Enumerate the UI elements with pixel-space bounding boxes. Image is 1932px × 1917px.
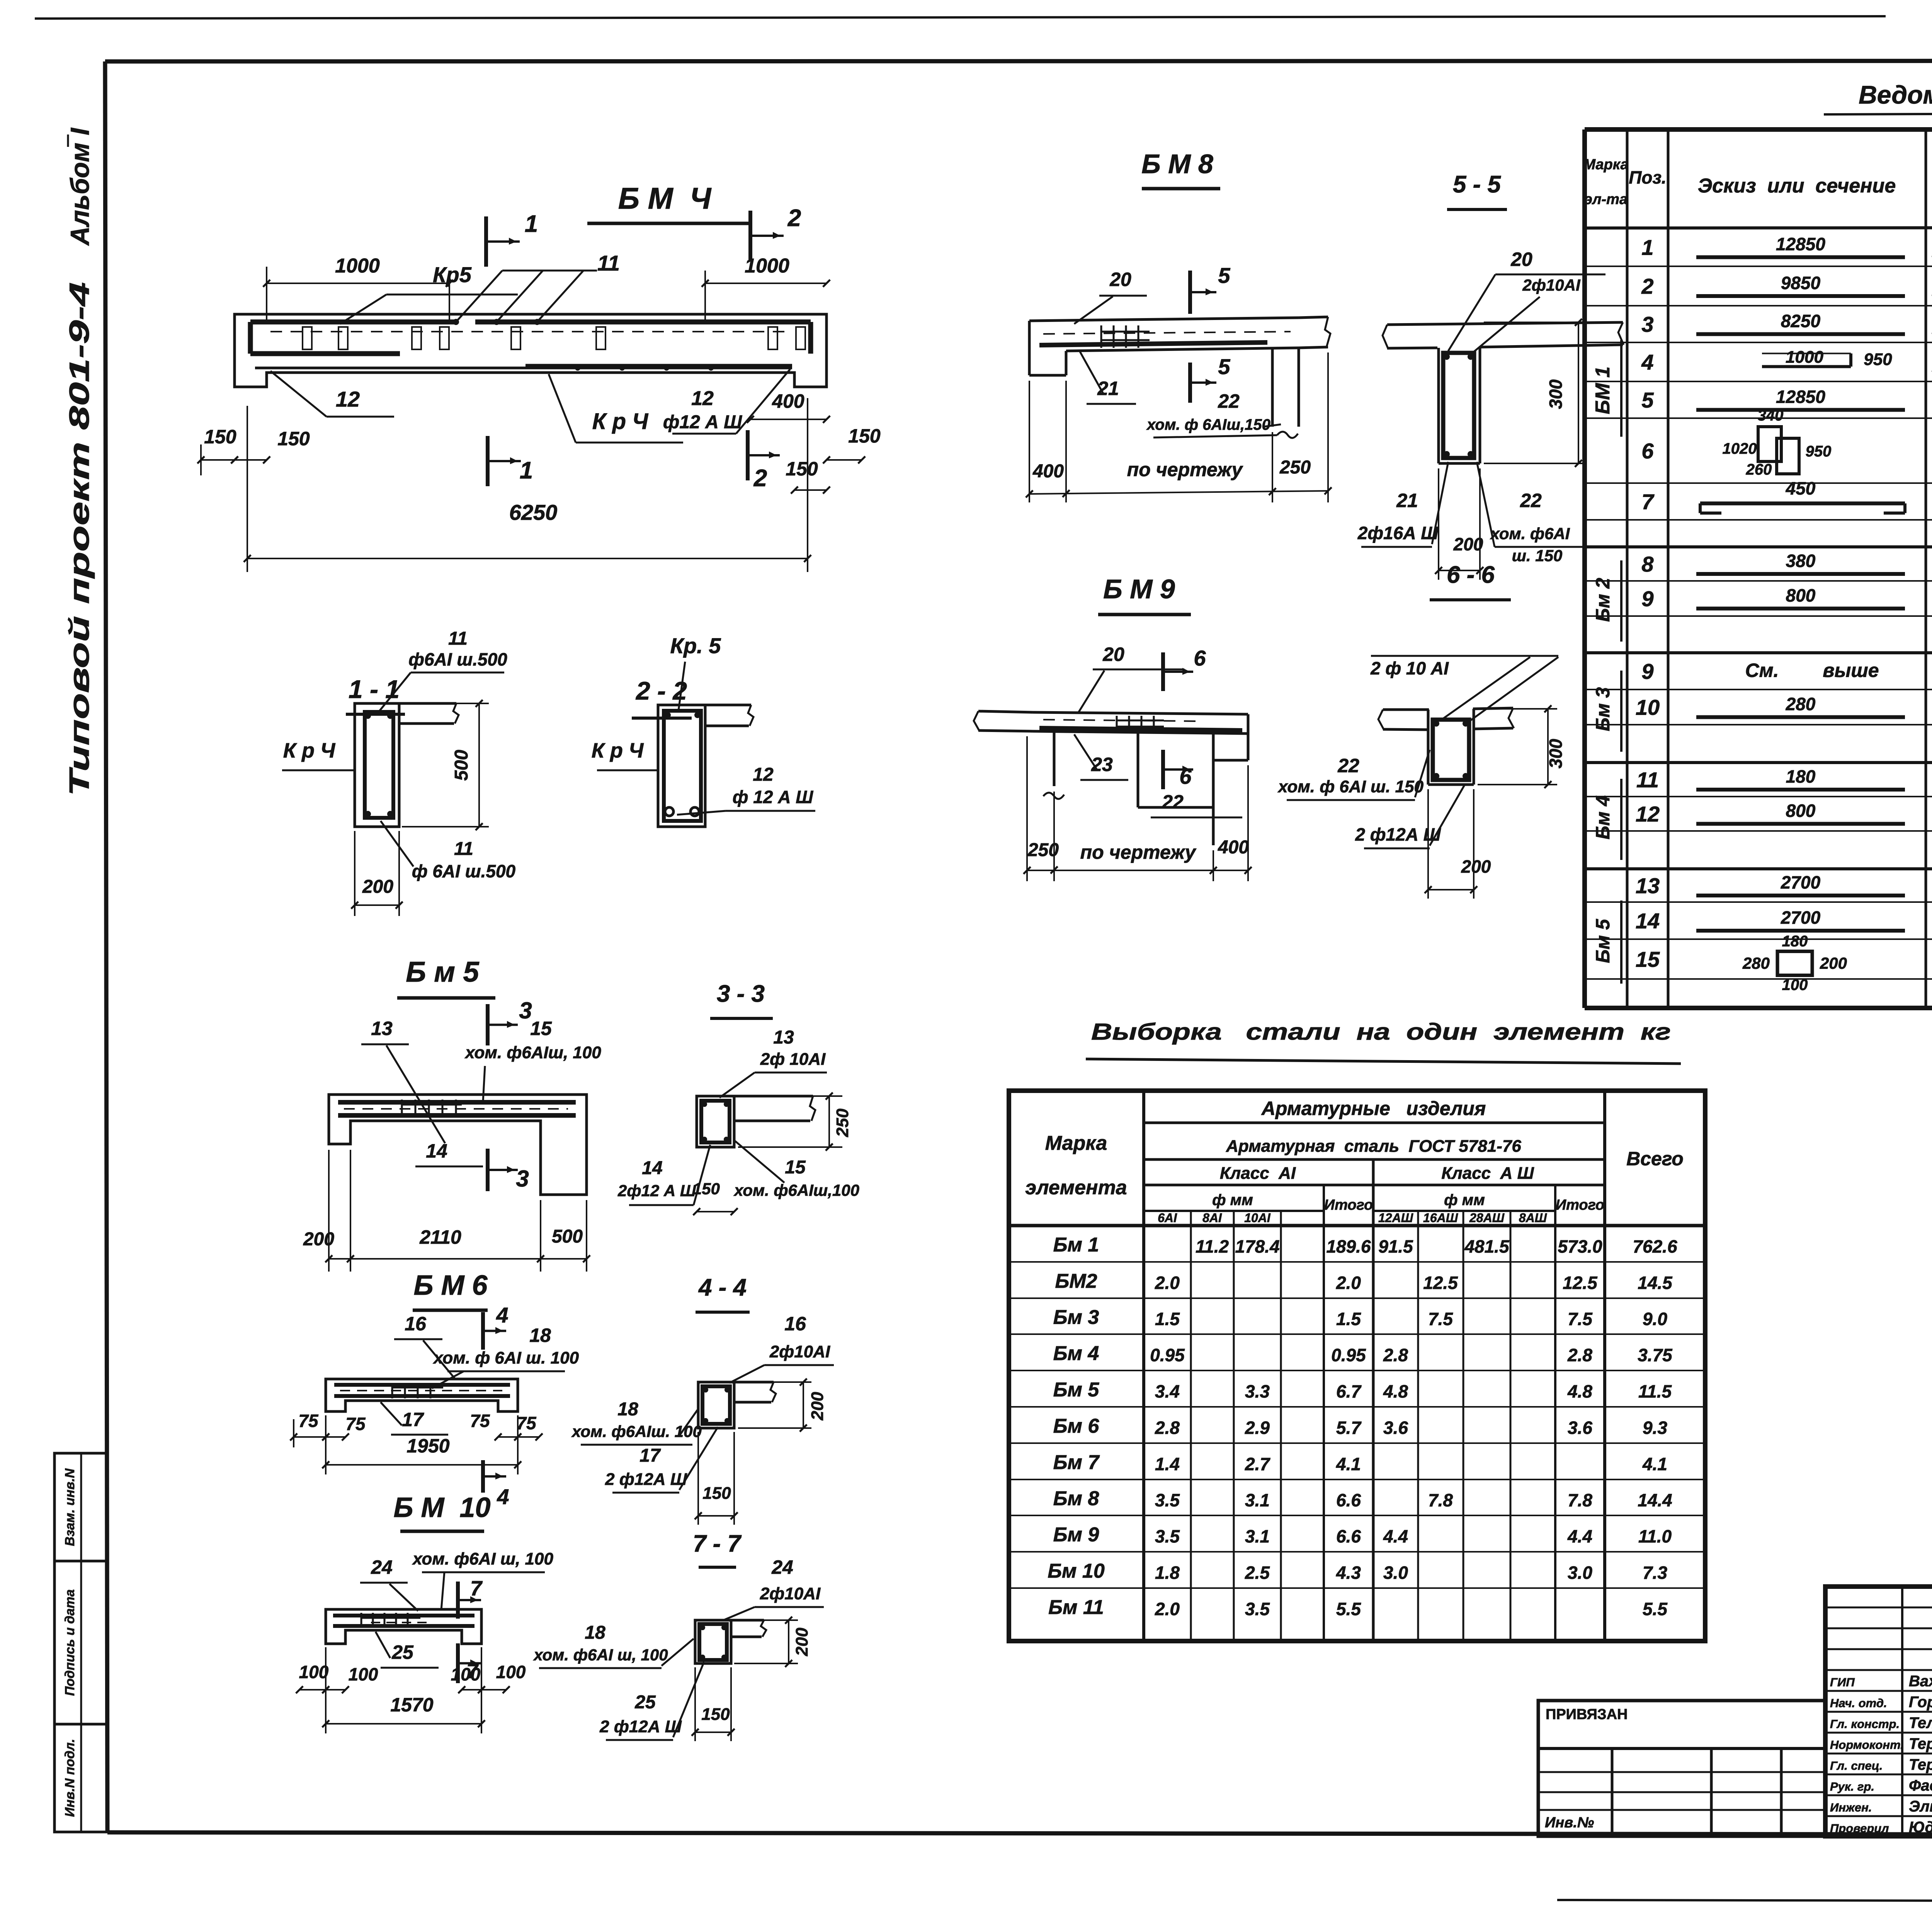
beam БМ9 outline [1033, 712, 1248, 714]
svg-text:Марка: Марка [1583, 157, 1628, 173]
beam БМ9 dims [1026, 736, 1028, 881]
svg-text:5: 5 [1218, 354, 1230, 379]
svg-text:Б м 5: Б м 5 [406, 956, 480, 988]
svg-text:12: 12 [336, 387, 360, 411]
svg-text:Альбом I: Альбом I [65, 127, 95, 246]
svg-text:Терешин: Терешин [1909, 1756, 1932, 1773]
section 6-6 dim 300 [1478, 708, 1557, 710]
svg-text:ГИП: ГИП [1830, 1675, 1855, 1689]
svg-text:500: 500 [451, 750, 472, 781]
svg-text:ф12 А Ш: ф12 А Ш [663, 412, 742, 432]
svg-text:Бм 10: Бм 10 [1048, 1560, 1105, 1582]
svg-text:20: 20 [1109, 269, 1131, 290]
beam БМ4 dim 1000 left [266, 267, 267, 321]
beam БМ8 rebar [1039, 342, 1267, 345]
svg-text:28АШ: 28АШ [1469, 1211, 1505, 1225]
svg-text:2ф 10АI: 2ф 10АI [760, 1050, 826, 1069]
beam БМ6 section marker 4 bottom [481, 1460, 485, 1493]
svg-text:9.0: 9.0 [1643, 1309, 1667, 1329]
svg-text:150: 150 [204, 426, 236, 448]
svg-text:3.5: 3.5 [1245, 1599, 1270, 1619]
svg-text:К р Ч: К р Ч [592, 409, 649, 434]
svg-text:100: 100 [349, 1664, 378, 1684]
svg-text:2.0: 2.0 [1155, 1273, 1180, 1293]
section 7-7 stirrup [699, 1624, 727, 1660]
beam БМ6 rebar [334, 1383, 510, 1387]
section 6-6 flange [1383, 708, 1429, 711]
svg-text:4.3: 4.3 [1336, 1563, 1361, 1583]
svg-text:1.4: 1.4 [1155, 1454, 1180, 1474]
beam БМ4 leader 11 [456, 271, 502, 322]
svg-text:Б М 6: Б М 6 [413, 1270, 488, 1301]
svg-text:1 - 1: 1 - 1 [349, 675, 400, 703]
svg-text:250: 250 [833, 1108, 852, 1137]
svg-text:3.75: 3.75 [1638, 1345, 1673, 1365]
svg-text:К р Ч: К р Ч [592, 739, 644, 762]
svg-text:100: 100 [496, 1662, 526, 1682]
svg-text:2110: 2110 [419, 1226, 461, 1248]
svg-text:2.7: 2.7 [1245, 1454, 1270, 1474]
svg-text:Бм 8: Бм 8 [1053, 1488, 1099, 1510]
svg-text:18: 18 [617, 1399, 638, 1420]
svg-text:4.8: 4.8 [1383, 1381, 1408, 1401]
section 5-5 flange [1387, 322, 1623, 325]
beam БМ4 outline [235, 314, 827, 387]
svg-text:9: 9 [1641, 587, 1653, 611]
svg-text:22: 22 [1520, 490, 1542, 511]
svg-text:14.5: 14.5 [1638, 1273, 1673, 1293]
svg-text:хом. ф6АI: хом. ф6АI [1490, 524, 1570, 543]
svg-text:эл-та: эл-та [1584, 191, 1628, 208]
section 7-7 outline [695, 1620, 731, 1663]
svg-text:6.6: 6.6 [1336, 1490, 1361, 1510]
svg-text:2ф10АI: 2ф10АI [769, 1342, 830, 1361]
svg-text:Терешин: Терешин [1909, 1735, 1932, 1752]
beam БМ10 section marker 7 bottom [456, 1643, 460, 1683]
svg-text:2.8: 2.8 [1155, 1418, 1180, 1438]
svg-text:22: 22 [1218, 390, 1240, 412]
title block left rows [1825, 1607, 1932, 1609]
beam БМ10 outline [326, 1609, 481, 1644]
svg-text:ПРИВЯЗАН: ПРИВЯЗАН [1546, 1706, 1628, 1723]
svg-text:1.5: 1.5 [1336, 1309, 1361, 1329]
svg-text:200: 200 [1453, 534, 1483, 554]
main drawing frame [105, 61, 1932, 61]
svg-text:15: 15 [530, 1018, 552, 1039]
beam БМ6 section marker 4 top [481, 1312, 485, 1350]
section 1-1 dim 200 [355, 904, 399, 906]
svg-text:20: 20 [1102, 644, 1124, 665]
beam БМ8 dims [1029, 381, 1030, 502]
svg-text:Гл. спец.: Гл. спец. [1830, 1759, 1883, 1772]
svg-text:Гл. констр.: Гл. констр. [1830, 1717, 1900, 1731]
beam БМ6 dim 1950 [325, 1415, 327, 1474]
beam БМ9 section marker 6 top [1161, 652, 1165, 691]
svg-text:481.5: 481.5 [1464, 1236, 1510, 1256]
svg-text:450: 450 [1786, 478, 1816, 499]
beam БМ10 section marker 7 top [456, 1582, 460, 1619]
svg-text:5: 5 [1218, 263, 1230, 288]
svg-text:Бм 6: Бм 6 [1053, 1415, 1100, 1437]
svg-text:100: 100 [299, 1662, 329, 1682]
svg-text:1.5: 1.5 [1155, 1309, 1180, 1329]
svg-text:6: 6 [1179, 764, 1192, 788]
svg-text:2ф16А Ш: 2ф16А Ш [1357, 523, 1439, 543]
svg-text:7.3: 7.3 [1643, 1563, 1667, 1583]
svg-text:7.8: 7.8 [1568, 1490, 1592, 1510]
svg-text:18: 18 [585, 1622, 605, 1643]
beam БМ5 rebar [338, 1100, 576, 1105]
svg-text:6АI: 6АI [1158, 1211, 1177, 1225]
vyborka header grid [1142, 1091, 1145, 1641]
sheet top edge line [35, 16, 1886, 19]
section 3-3 dim 250 [738, 1095, 842, 1097]
svg-text:3.1: 3.1 [1245, 1490, 1270, 1510]
beam БМ6 outline [326, 1379, 518, 1411]
svg-text:8АI: 8АI [1202, 1211, 1222, 1225]
svg-text:2700: 2700 [1781, 872, 1821, 892]
svg-text:25: 25 [634, 1692, 656, 1713]
svg-text:280: 280 [1786, 694, 1816, 714]
svg-text:2ф10АI: 2ф10АI [1522, 276, 1581, 294]
svg-text:180: 180 [1786, 766, 1816, 787]
svg-text:3 - 3: 3 - 3 [717, 981, 765, 1007]
beam БМ4 rebar Кр5 top bar [250, 320, 456, 325]
svg-text:150: 150 [701, 1705, 730, 1724]
svg-text:13: 13 [1636, 873, 1660, 898]
beam БМ5 section marker 3 top [486, 1004, 490, 1045]
svg-text:100: 100 [451, 1664, 481, 1684]
svg-text:Бм 3: Бм 3 [1592, 687, 1614, 731]
svg-text:Бм 2: Бм 2 [1592, 578, 1614, 622]
svg-text:24: 24 [771, 1556, 793, 1578]
beam БМ4 section marker 2 bottom [746, 430, 750, 480]
svg-text:3.5: 3.5 [1155, 1526, 1180, 1546]
svg-text:1000: 1000 [1786, 348, 1823, 367]
svg-text:7.5: 7.5 [1428, 1309, 1453, 1329]
svg-text:22: 22 [1162, 791, 1184, 813]
svg-text:Бм 4: Бм 4 [1592, 795, 1614, 839]
svg-text:1000: 1000 [335, 255, 380, 277]
vedomost vertical column lines [1626, 129, 1629, 1008]
svg-text:Выборка стали на один эле: Выборка стали на один элемент кг [1091, 1019, 1671, 1045]
svg-text:Теляковский: Теляковский [1909, 1714, 1932, 1731]
svg-text:380: 380 [1786, 551, 1816, 571]
svg-text:8250: 8250 [1781, 311, 1821, 331]
svg-text:11.5: 11.5 [1638, 1381, 1672, 1401]
svg-text:Инв.№: Инв.№ [1545, 1815, 1594, 1831]
section 3-3 outline [697, 1096, 734, 1147]
svg-text:15: 15 [1636, 947, 1660, 972]
svg-text:3: 3 [1641, 312, 1653, 337]
sheet bottom edge line [1557, 1900, 1932, 1902]
svg-text:2ф12 А Ш: 2ф12 А Ш [617, 1182, 696, 1200]
svg-text:БМ 1: БМ 1 [1592, 366, 1614, 414]
svg-text:Б М Ч: Б М Ч [618, 181, 712, 215]
svg-text:ш. 150: ш. 150 [1512, 546, 1563, 565]
svg-text:хом. ф 6АI ш. 100: хом. ф 6АI ш. 100 [433, 1348, 579, 1367]
svg-text:12: 12 [1636, 802, 1660, 826]
svg-text:Бм 7: Бм 7 [1053, 1451, 1100, 1474]
vyborka table outer grid [1009, 1091, 1705, 1641]
section 3-3 stirrup [701, 1101, 730, 1142]
svg-text:11.2: 11.2 [1196, 1236, 1229, 1256]
svg-text:хом. ф6АI ш, 100: хом. ф6АI ш, 100 [412, 1549, 553, 1568]
svg-text:5.5: 5.5 [1643, 1599, 1668, 1619]
svg-text:17: 17 [639, 1445, 661, 1466]
svg-text:400: 400 [1032, 461, 1064, 482]
svg-text:Вахрушев: Вахрушев [1909, 1673, 1932, 1690]
svg-text:91.5: 91.5 [1378, 1236, 1413, 1256]
svg-text:573.0: 573.0 [1558, 1236, 1602, 1256]
svg-text:250: 250 [1027, 840, 1059, 860]
svg-text:2: 2 [753, 465, 767, 492]
svg-text:200: 200 [793, 1628, 811, 1657]
svg-text:5.5: 5.5 [1336, 1599, 1361, 1619]
svg-text:См.: См. [1745, 660, 1779, 681]
section 5-5 stirrup [1443, 353, 1474, 458]
svg-text:150: 150 [277, 428, 310, 449]
svg-text:950: 950 [1806, 443, 1832, 460]
svg-text:хом. ф 6АI ш. 150: хом. ф 6АI ш. 150 [1277, 777, 1424, 796]
svg-text:7: 7 [470, 1577, 483, 1600]
svg-text:Нормоконт.: Нормоконт. [1830, 1738, 1904, 1752]
beam БМ8 outline [1029, 318, 1299, 321]
svg-text:21: 21 [1396, 490, 1418, 511]
svg-text:7.8: 7.8 [1428, 1490, 1453, 1510]
svg-text:800: 800 [1786, 586, 1816, 606]
beam БМ4 stirrup dashes [270, 331, 792, 332]
svg-text:ф 12 А Ш: ф 12 А Ш [733, 787, 813, 807]
svg-text:6250: 6250 [509, 500, 558, 524]
svg-text:хом. ф6АI ш, 100: хом. ф6АI ш, 100 [533, 1646, 668, 1664]
svg-text:1: 1 [1641, 235, 1653, 260]
svg-text:Кр5: Кр5 [433, 262, 472, 287]
svg-text:3.0: 3.0 [1568, 1563, 1592, 1583]
svg-text:2700: 2700 [1781, 907, 1821, 928]
svg-text:178.4: 178.4 [1235, 1236, 1279, 1256]
svg-text:Бм 11: Бм 11 [1048, 1596, 1104, 1619]
svg-text:1000: 1000 [745, 255, 789, 277]
section 4-4 dim 200 [738, 1381, 811, 1383]
svg-text:хом. ф6АIш,100: хом. ф6АIш,100 [733, 1181, 859, 1199]
svg-text:400: 400 [772, 390, 804, 412]
svg-text:11.0: 11.0 [1638, 1526, 1672, 1546]
svg-text:Рук. гр.: Рук. гр. [1830, 1780, 1874, 1793]
privyazan table [1538, 1701, 1825, 1836]
beam БМ8 right legs [1271, 349, 1274, 427]
beam БМ5 outline [329, 1095, 587, 1195]
svg-text:2.5: 2.5 [1245, 1563, 1270, 1583]
sidebar stamp boxes [54, 1453, 107, 1832]
vyborka row lines [1009, 1261, 1705, 1263]
svg-text:260: 260 [1746, 461, 1772, 478]
beam БМ10 dim 1570 [325, 1647, 327, 1733]
svg-text:4.8: 4.8 [1567, 1381, 1592, 1401]
svg-text:150: 150 [693, 1180, 720, 1198]
vedomost header row line [1585, 227, 1932, 228]
svg-text:ф мм: ф мм [1212, 1192, 1253, 1209]
section 4-4 outline [698, 1382, 734, 1428]
svg-text:75: 75 [345, 1414, 366, 1434]
svg-text:2.0: 2.0 [1336, 1273, 1361, 1293]
svg-text:11: 11 [454, 839, 473, 859]
svg-text:3.4: 3.4 [1155, 1381, 1180, 1401]
svg-text:17: 17 [402, 1409, 424, 1430]
svg-text:200: 200 [808, 1392, 827, 1421]
beam БМ6 stirrup marks [391, 1383, 393, 1398]
svg-text:Б М 9: Б М 9 [1103, 574, 1175, 604]
svg-text:Класс АI: Класс АI [1220, 1164, 1296, 1183]
svg-text:5: 5 [1641, 388, 1654, 412]
title block outer [1825, 1587, 1932, 1836]
svg-text:9850: 9850 [1781, 273, 1821, 293]
svg-text:1: 1 [525, 211, 538, 237]
svg-text:Бм 4: Бм 4 [1053, 1342, 1099, 1365]
svg-text:3: 3 [516, 1166, 529, 1192]
beam БМ4 section marker 1 bottom [486, 436, 490, 486]
svg-text:14.4: 14.4 [1638, 1490, 1672, 1510]
svg-text:75: 75 [470, 1411, 490, 1431]
svg-text:10АI: 10АI [1244, 1211, 1271, 1225]
svg-text:150: 150 [702, 1484, 731, 1503]
beam БМ9 rebar [1039, 728, 1242, 730]
section 4-4 stirrup [702, 1386, 730, 1424]
svg-text:9: 9 [1641, 659, 1653, 684]
beam БМ9 stirrup marks [1116, 716, 1118, 731]
svg-text:280: 280 [1742, 954, 1770, 972]
svg-text:800: 800 [1786, 801, 1816, 821]
svg-text:500: 500 [552, 1226, 583, 1247]
beam БМ8 section marker 5 top [1188, 271, 1192, 314]
svg-text:Поз.: Поз. [1629, 167, 1666, 187]
svg-text:Бм 5: Бм 5 [1592, 919, 1614, 963]
svg-text:Арматурные изделия: Арматурные изделия [1261, 1098, 1486, 1119]
svg-text:ф мм: ф мм [1444, 1192, 1485, 1209]
svg-text:12АШ: 12АШ [1378, 1211, 1413, 1225]
svg-text:1950: 1950 [406, 1435, 449, 1457]
svg-text:189.6: 189.6 [1326, 1236, 1371, 1256]
svg-text:БМ2: БМ2 [1055, 1270, 1097, 1292]
svg-text:11: 11 [448, 628, 468, 649]
svg-text:Юдин: Юдин [1909, 1819, 1932, 1836]
svg-text:Типовой проект 801-9-4: Типовой проект 801-9-4 [64, 282, 95, 796]
svg-text:22: 22 [1337, 755, 1359, 776]
section 2-2 stirrup [664, 711, 701, 821]
vedomost table outer grid [1585, 127, 1932, 132]
beam БМ4 section marker 1 top [484, 216, 488, 267]
svg-text:2 ф 10 АI: 2 ф 10 АI [1370, 658, 1449, 678]
svg-text:16: 16 [405, 1313, 427, 1335]
beam БМ10 rebar [333, 1614, 474, 1617]
svg-text:2 ф12А Ш: 2 ф12А Ш [605, 1470, 687, 1489]
svg-text:по чертежу: по чертежу [1127, 459, 1243, 480]
beam БМ8 section marker 5 bottom [1188, 363, 1192, 403]
svg-text:180: 180 [1782, 933, 1808, 950]
beam БМ10 stirrup marks [361, 1613, 362, 1628]
svg-text:12.5: 12.5 [1563, 1273, 1598, 1293]
svg-text:8: 8 [1641, 552, 1654, 576]
svg-text:7.5: 7.5 [1568, 1309, 1593, 1329]
svg-text:4: 4 [496, 1303, 508, 1327]
svg-text:Бм 9: Бм 9 [1053, 1524, 1099, 1546]
svg-text:2.0: 2.0 [1155, 1599, 1180, 1619]
svg-text:300: 300 [1546, 739, 1566, 768]
svg-text:2: 2 [1641, 274, 1653, 298]
svg-text:3.1: 3.1 [1245, 1526, 1270, 1546]
svg-text:3.0: 3.0 [1383, 1563, 1408, 1583]
svg-text:Марка: Марка [1045, 1132, 1107, 1154]
beam БМ8 stirrup marks [1100, 325, 1102, 348]
svg-text:11: 11 [597, 251, 620, 275]
svg-text:4.4: 4.4 [1383, 1526, 1408, 1546]
svg-text:7 - 7: 7 - 7 [693, 1531, 742, 1557]
svg-text:9.3: 9.3 [1643, 1418, 1667, 1438]
vedomost left half row lines [1585, 266, 1932, 267]
svg-text:хом. ф 6АIш,150: хом. ф 6АIш,150 [1146, 416, 1270, 433]
svg-text:Инв.N подл.: Инв.N подл. [63, 1739, 77, 1817]
svg-text:Б М 8: Б М 8 [1141, 149, 1213, 179]
beam БМ4 dim 1000 right [704, 271, 706, 321]
svg-text:5 - 5: 5 - 5 [1453, 171, 1502, 198]
svg-text:14: 14 [1636, 909, 1660, 933]
svg-text:Эскиз или сечение: Эскиз или сечение [1698, 175, 1896, 197]
svg-text:по чертежу: по чертежу [1080, 841, 1197, 863]
svg-text:18: 18 [529, 1325, 551, 1346]
svg-text:Бм 3: Бм 3 [1053, 1306, 1099, 1329]
beam БМ9 left flange cut [978, 711, 1033, 712]
svg-text:6 - 6: 6 - 6 [1447, 562, 1495, 588]
svg-text:6.7: 6.7 [1336, 1381, 1362, 1401]
svg-text:6.6: 6.6 [1336, 1526, 1361, 1546]
section 2-2 outline [658, 705, 705, 827]
svg-text:К р Ч: К р Ч [283, 739, 336, 762]
svg-text:4.1: 4.1 [1336, 1454, 1361, 1474]
svg-text:5.7: 5.7 [1336, 1418, 1362, 1438]
svg-text:3.6: 3.6 [1568, 1418, 1592, 1438]
svg-text:950: 950 [1864, 350, 1892, 369]
svg-text:24: 24 [371, 1556, 393, 1578]
svg-text:3.5: 3.5 [1155, 1490, 1180, 1510]
svg-text:10: 10 [1636, 695, 1660, 720]
svg-text:150: 150 [786, 458, 818, 480]
svg-text:Нач. отд.: Нач. отд. [1830, 1696, 1887, 1710]
svg-text:14: 14 [426, 1140, 447, 1162]
beam БМ5 dims [328, 1150, 330, 1272]
svg-text:Итого: Итого [1324, 1197, 1373, 1213]
beam БМ4 dim 400 [750, 419, 827, 420]
svg-text:Ведомость стержней на о: Ведомость стержней на один элемент [1859, 80, 1932, 109]
svg-text:15: 15 [785, 1157, 806, 1178]
svg-text:12.5: 12.5 [1423, 1273, 1458, 1293]
svg-text:7: 7 [1641, 490, 1655, 514]
svg-text:ф 6АI ш.500: ф 6АI ш.500 [412, 861, 516, 881]
svg-text:12: 12 [753, 764, 774, 785]
svg-text:25: 25 [391, 1641, 414, 1663]
svg-text:12850: 12850 [1776, 234, 1825, 254]
svg-text:выше: выше [1823, 660, 1879, 681]
beam БМ4 bottom chord Кр4 [255, 367, 792, 369]
svg-text:200: 200 [362, 877, 393, 897]
svg-text:16: 16 [784, 1313, 806, 1335]
svg-text:300: 300 [1546, 379, 1566, 409]
svg-text:2 ф12А Ш: 2 ф12А Ш [599, 1717, 682, 1736]
svg-text:Итого: Итого [1556, 1197, 1604, 1213]
svg-text:Б М 10: Б М 10 [393, 1492, 490, 1523]
svg-text:2.9: 2.9 [1245, 1418, 1270, 1438]
svg-text:11: 11 [1636, 768, 1659, 792]
svg-text:3.3: 3.3 [1245, 1381, 1270, 1401]
